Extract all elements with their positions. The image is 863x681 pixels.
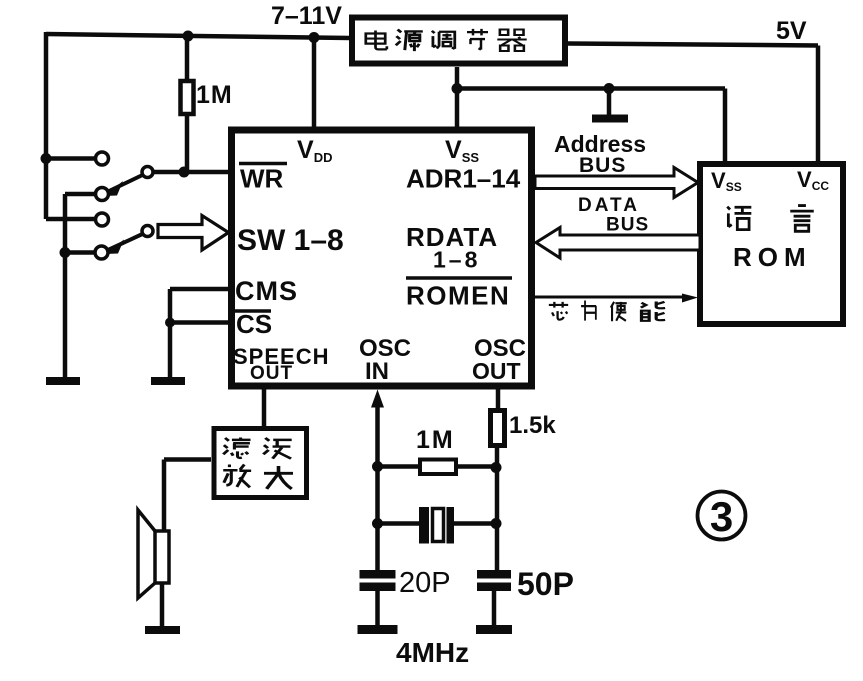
svg-text:OUT: OUT xyxy=(472,358,521,384)
svg-text:BUS: BUS xyxy=(579,154,626,177)
svg-text:50P: 50P xyxy=(517,566,574,602)
svg-text:3: 3 xyxy=(710,493,733,540)
svg-text:BUS: BUS xyxy=(606,215,649,236)
svg-text:1M: 1M xyxy=(416,426,455,454)
svg-text:ROMEN: ROMEN xyxy=(406,281,510,311)
svg-text:1M: 1M xyxy=(196,81,233,109)
svg-text:7–11V: 7–11V xyxy=(271,2,342,30)
svg-text:4MHz: 4MHz xyxy=(396,637,469,668)
svg-text:ROM: ROM xyxy=(733,242,812,272)
svg-text:1–8: 1–8 xyxy=(433,247,480,273)
svg-text:OUT: OUT xyxy=(250,363,293,384)
svg-text:CS: CS xyxy=(236,309,272,339)
svg-text:CMS: CMS xyxy=(235,276,298,306)
svg-text:1.5k: 1.5k xyxy=(509,412,556,439)
svg-text:SW 1–8: SW 1–8 xyxy=(237,224,344,257)
svg-text:5V: 5V xyxy=(776,17,807,45)
svg-text:ADR1–14: ADR1–14 xyxy=(406,164,521,194)
svg-text:20P: 20P xyxy=(399,567,451,599)
svg-text:DATA: DATA xyxy=(578,195,640,216)
svg-text:WR: WR xyxy=(240,164,284,194)
svg-text:IN: IN xyxy=(365,358,389,385)
